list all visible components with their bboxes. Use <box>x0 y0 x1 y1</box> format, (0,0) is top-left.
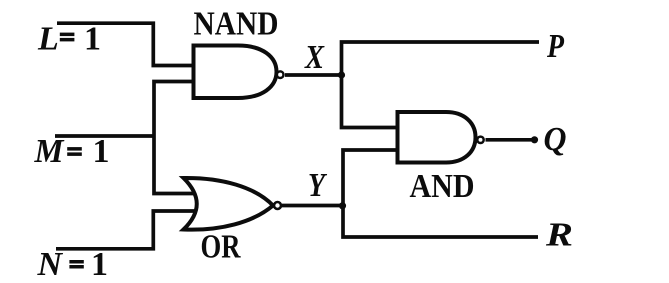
AND output bubble <box>477 137 483 143</box>
label L = 1 <box>37 21 101 58</box>
svg-text:NAND: NAND <box>194 6 279 43</box>
OR gate body <box>184 178 274 230</box>
svg-text:L: L <box>37 21 59 58</box>
svg-text:N: N <box>37 246 64 283</box>
wire node X output from NAND <box>285 73 342 77</box>
OR output bubble <box>274 202 281 209</box>
wire N input <box>56 211 197 249</box>
svg-text:X: X <box>304 39 325 76</box>
svg-text:M: M <box>34 133 66 170</box>
svg-text:AND: AND <box>410 168 475 205</box>
junction node Y <box>339 202 346 209</box>
svg-text:1: 1 <box>93 133 110 170</box>
label M = 1 <box>34 133 110 170</box>
svg-text:P: P <box>546 28 564 65</box>
wire M input <box>55 134 154 138</box>
svg-text:1: 1 <box>84 21 101 58</box>
wire to P <box>342 42 540 75</box>
NAND output bubble <box>277 71 284 78</box>
wire node Y output from OR <box>282 204 343 208</box>
svg-text:Q: Q <box>544 121 567 158</box>
terminal dot Q <box>531 136 538 143</box>
svg-text:OR: OR <box>201 229 241 266</box>
svg-text:Y: Y <box>308 167 328 204</box>
wire M branch (NAND in2 / OR in1) <box>154 82 197 194</box>
wire Q output <box>486 138 535 142</box>
wire to R <box>343 206 538 238</box>
NAND gate body <box>194 46 277 99</box>
wire X to AND in1 <box>342 75 398 128</box>
svg-text:1: 1 <box>91 246 108 283</box>
label N = 1 <box>37 246 109 283</box>
wire L input <box>57 23 194 65</box>
junction node X <box>338 71 345 78</box>
wire Y to AND in2 <box>343 150 397 206</box>
AND gate body <box>398 112 476 163</box>
svg-text:R: R <box>545 217 573 254</box>
